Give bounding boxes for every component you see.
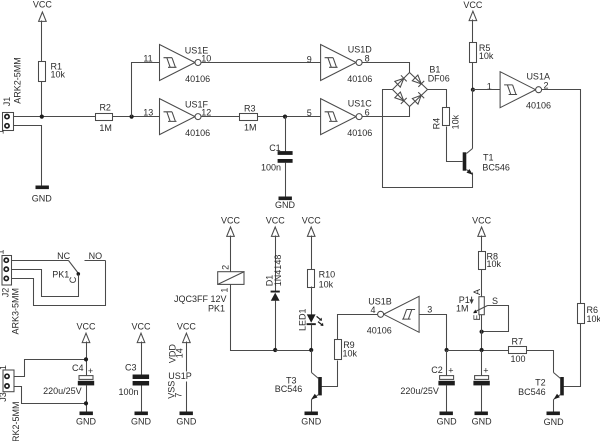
svg-text:BC546: BC546 (482, 163, 510, 173)
wire US1B out to R9 (338, 315, 378, 340)
resistor R1 (39, 62, 66, 82)
svg-text:C1: C1 (269, 143, 281, 153)
resistor R7 (509, 336, 527, 364)
svg-text:10k: 10k (51, 70, 66, 80)
wire R8 to P1 (481, 270, 483, 297)
svg-text:JQC3FF 12V: JQC3FF 12V (174, 294, 227, 304)
svg-text:BC546: BC546 (518, 387, 546, 397)
inverter US1E (160, 45, 211, 85)
power VCC symbol (D1) (266, 216, 286, 237)
svg-text:PK1: PK1 (52, 269, 69, 279)
bridge diode top-left (395, 75, 407, 87)
svg-text:5: 5 (307, 108, 312, 118)
wire LED to node (311, 325, 313, 351)
svg-text:220u/25V: 220u/25V (400, 386, 439, 396)
wire node to LED dot (276, 350, 312, 352)
wire C3 to ground (141, 386, 143, 412)
pin 13 label (143, 107, 153, 117)
wire node line to R7 (447, 350, 509, 352)
wire VCC to R5 (472, 20, 474, 43)
wire C1 to ground (285, 163, 287, 197)
node P1/C junction (480, 348, 484, 352)
svg-text:40106: 40106 (185, 74, 210, 84)
svg-text:3: 3 (427, 305, 432, 315)
svg-text:4: 4 (370, 305, 375, 315)
wire VCC to C4 (86, 342, 88, 376)
svg-text:R3: R3 (244, 103, 256, 113)
resistor R10 (308, 270, 336, 290)
inverter US1A (500, 72, 551, 111)
capacitor C2 (400, 351, 454, 397)
pin 3 label (427, 305, 432, 315)
potentiometer P1 (456, 289, 498, 321)
svg-text:100n: 100n (119, 387, 139, 397)
wire J2 pin1 to NC contact (12, 260, 69, 262)
wire R3 to US1C input (258, 116, 321, 118)
node J3/VCC junction (84, 357, 88, 361)
svg-text:10k: 10k (450, 114, 460, 129)
svg-text:14: 14 (175, 348, 185, 358)
relay contact NC label (57, 251, 70, 261)
wire R2 to US1F input (113, 116, 160, 118)
svg-text:ARK2-5MM: ARK2-5MM (13, 57, 23, 104)
svg-text:BC546: BC546 (275, 384, 303, 394)
wire C4 to ground (86, 386, 88, 412)
capacitor C1 (261, 143, 293, 173)
pin 12 label (201, 107, 211, 117)
svg-text:VCC: VCC (463, 0, 483, 10)
wire bridge minus to T1 emitter (383, 90, 473, 188)
wire J1 pin1 to R2 (14, 116, 96, 118)
wire J1 pin2 to GND (14, 126, 42, 186)
svg-text:2: 2 (221, 265, 231, 270)
svg-text:GND: GND (544, 417, 565, 427)
svg-text:40106: 40106 (367, 326, 392, 336)
bridge diode top-right (412, 75, 424, 87)
svg-text:ARK3-5MM: ARK3-5MM (11, 288, 21, 335)
power VCC symbol (C3) (131, 321, 151, 342)
svg-text:J1: J1 (2, 97, 12, 107)
pin 1 label (487, 81, 492, 91)
wire C2b to ground (481, 386, 483, 412)
wire US1A out to R6 (542, 90, 581, 304)
svg-text:VCC: VCC (177, 321, 197, 331)
wire R5 to node (472, 63, 474, 90)
svg-text:VCC: VCC (302, 216, 322, 226)
wire US1E out to US1D in (202, 62, 321, 64)
resistor R5 (470, 43, 494, 63)
relay contact NO bar (85, 260, 106, 262)
svg-text:T2: T2 (535, 377, 546, 387)
wire D1 to node line (275, 301, 277, 351)
svg-text:220u/25V: 220u/25V (43, 386, 82, 396)
svg-text:R2: R2 (99, 103, 111, 113)
power VCC symbol (R1) (33, 0, 53, 21)
pin 6 label (365, 107, 370, 117)
svg-text:+: + (448, 365, 453, 375)
svg-text:9: 9 (307, 55, 312, 65)
wire US1C out to bridge bottom (362, 107, 410, 117)
svg-text:13: 13 (143, 107, 153, 117)
svg-text:1M: 1M (456, 303, 469, 313)
resistor R2 (96, 103, 113, 133)
svg-text:R10: R10 (319, 270, 336, 280)
svg-text:VCC: VCC (76, 321, 96, 331)
svg-text:R4: R4 (431, 118, 441, 130)
svg-text:1N4148: 1N4148 (273, 255, 283, 287)
svg-text:40106: 40106 (347, 74, 372, 84)
inverter US1C (321, 99, 373, 138)
svg-text:+: + (483, 365, 488, 375)
svg-text:GND: GND (301, 417, 322, 427)
power VCC symbol (R5) (463, 0, 483, 21)
svg-text:J2: J2 (0, 288, 10, 298)
ground (C2) (437, 412, 458, 427)
svg-text:NO: NO (89, 251, 103, 261)
wire branch up to US1E input (132, 63, 160, 117)
svg-text:40106: 40106 (185, 128, 210, 138)
svg-text:10k: 10k (479, 51, 494, 61)
pin 11 label (143, 54, 152, 64)
wire US1B input (420, 315, 447, 351)
node C2 junction (445, 348, 449, 352)
node R5/US1A/T1 (471, 88, 475, 92)
svg-text:PK1: PK1 (208, 304, 225, 314)
svg-text:T1: T1 (483, 153, 494, 163)
svg-text:40106: 40106 (526, 100, 551, 110)
resistor R3 (240, 103, 258, 132)
wire VCC to C3 (141, 342, 143, 375)
ground (J1) (32, 186, 53, 204)
node branch to US1E (130, 115, 134, 119)
svg-text:GND: GND (275, 200, 296, 210)
svg-text:VCC: VCC (131, 321, 151, 331)
pin 4 label (370, 305, 375, 315)
svg-text:1: 1 (220, 288, 230, 293)
svg-text:7: 7 (174, 393, 184, 398)
svg-text:1: 1 (0, 129, 5, 134)
pin 5 label (307, 108, 312, 118)
wire US1D out to bridge top (362, 63, 410, 73)
svg-text:C: C (68, 276, 78, 283)
svg-text:R7: R7 (512, 336, 524, 346)
svg-text:12: 12 (201, 107, 211, 117)
node D1 junction (273, 348, 277, 352)
svg-text:100: 100 (510, 354, 525, 364)
connector J3 (0, 365, 21, 441)
pin 9 label (307, 55, 312, 65)
wire R7 to T2 collector (527, 351, 554, 373)
resistor R8 (479, 251, 502, 269)
wire node to T3 collector (311, 351, 313, 373)
svg-text:GND: GND (131, 417, 152, 427)
power VCC symbol (R10) (302, 216, 322, 237)
power VCC symbol (PK1 coil) (221, 216, 241, 237)
svg-text:ARK2-5MM: ARK2-5MM (11, 401, 21, 441)
svg-text:VCC: VCC (221, 216, 241, 226)
wire J2 pin3 to NO (12, 261, 106, 306)
capacitor C3 (119, 363, 150, 398)
wire R6 to T2 base (564, 324, 581, 387)
node J1/R1 junction (40, 115, 44, 119)
inverter US1B (367, 296, 419, 335)
wire R9 to T3 base (322, 361, 338, 387)
wire VCC to D1 (275, 236, 277, 292)
wire VCC to R1 (41, 21, 43, 62)
svg-text:10k: 10k (587, 314, 600, 324)
capacitor C2b (second electrolytic) (473, 351, 489, 386)
svg-text:GND: GND (437, 417, 458, 427)
bridge diode bottom-right (412, 92, 424, 104)
resistor R9 (335, 340, 358, 360)
svg-text:GND: GND (76, 417, 97, 427)
wire VCC to R10 (311, 236, 313, 270)
svg-text:10k: 10k (343, 349, 358, 359)
svg-text:1M: 1M (244, 123, 257, 133)
wire P1 to node line (481, 315, 483, 351)
svg-text:VCC: VCC (472, 216, 492, 226)
inverter US1D (321, 45, 373, 85)
connector J2 (0, 249, 21, 334)
bridge B1 frame (393, 65, 450, 107)
ground (T3) (301, 412, 322, 427)
svg-text:100n: 100n (261, 163, 281, 173)
led LED1 (297, 308, 323, 331)
connector J1 (0, 57, 23, 134)
wire J2 pin2 to common (12, 270, 79, 297)
resistor R6 (578, 304, 600, 325)
transistor T1 (463, 149, 510, 175)
svg-text:10k: 10k (487, 259, 502, 269)
wire J3 pin2 to GND node (15, 387, 87, 404)
wire bridge plus to R4 (428, 90, 447, 108)
svg-text:S: S (492, 296, 498, 306)
ground (C2b) (472, 412, 493, 427)
svg-text:NC: NC (57, 251, 70, 261)
transistor T2 (518, 373, 564, 400)
svg-text:C4: C4 (72, 363, 84, 373)
svg-text:E: E (472, 314, 482, 320)
pin 10 label (201, 54, 211, 64)
svg-text:GND: GND (32, 194, 53, 204)
svg-text:1: 1 (0, 365, 8, 370)
bridge diode bottom-left (395, 92, 407, 104)
wire VCC to R8 (481, 236, 483, 252)
power VCC symbol (C4) (76, 321, 96, 342)
pin 2 label (543, 81, 548, 91)
svg-text:11: 11 (143, 54, 152, 64)
svg-text:GND: GND (472, 417, 493, 427)
ground (C3) (131, 412, 152, 427)
power VCC symbol (R8) (472, 216, 492, 237)
svg-text:+: + (88, 366, 93, 376)
svg-text:10k: 10k (319, 279, 334, 289)
relay coil PK1 (174, 265, 245, 314)
svg-text:C2: C2 (431, 365, 443, 375)
ground (C1) (275, 197, 296, 211)
wire P1 wiper to bottom (482, 306, 509, 332)
svg-text:VCC: VCC (266, 216, 286, 226)
wire VCC to coil (230, 236, 232, 272)
svg-text:A: A (472, 289, 482, 295)
wire node to T1 collector (472, 90, 474, 149)
svg-text:J3: J3 (0, 392, 8, 402)
wire R10 to LED (311, 287, 313, 315)
pin 8 label (365, 54, 370, 64)
relay contact NO label (89, 251, 103, 261)
wire coil to node line (231, 285, 276, 351)
node LED/T3 junction (309, 348, 313, 352)
svg-text:GND: GND (176, 417, 197, 427)
transistor T3 (275, 373, 322, 400)
svg-text:C3: C3 (125, 363, 137, 373)
capacitor C4 (43, 363, 94, 396)
svg-text:40106: 40106 (347, 128, 372, 138)
svg-text:US1P: US1P (168, 371, 192, 381)
wire C1 branch (285, 117, 287, 152)
wire J3 pin1 to VCC node (15, 360, 87, 377)
svg-text:VCC: VCC (33, 0, 53, 10)
ground (T2) (544, 412, 565, 427)
wire C2 to ground (446, 386, 448, 412)
power VCC symbol (US1P) (177, 321, 197, 342)
wire US1F out to R3 (202, 116, 240, 118)
svg-text:LED1: LED1 (297, 308, 307, 331)
ground (US1P) (176, 412, 197, 427)
node J3/GND junction (84, 401, 88, 405)
wire R4 to T1 base (447, 127, 463, 162)
diode D1 (265, 255, 284, 301)
svg-text:DF06: DF06 (428, 73, 450, 83)
relay contact arm PK1 (52, 261, 80, 284)
wire T3 emitter to ground (311, 400, 313, 412)
ic power US1P (166, 342, 192, 412)
node P1 wiper junction (480, 330, 484, 334)
svg-text:6: 6 (365, 107, 370, 117)
svg-text:1M: 1M (99, 123, 112, 133)
ground (C4) (76, 412, 97, 427)
wire R1 to node (41, 82, 43, 117)
inverter US1F (160, 99, 211, 138)
resistor R4 (431, 108, 460, 130)
wire node to US1A input (473, 89, 501, 91)
wire T2 emitter to ground (553, 400, 555, 412)
node C1 junction (283, 115, 287, 119)
svg-text:1: 1 (0, 249, 6, 254)
